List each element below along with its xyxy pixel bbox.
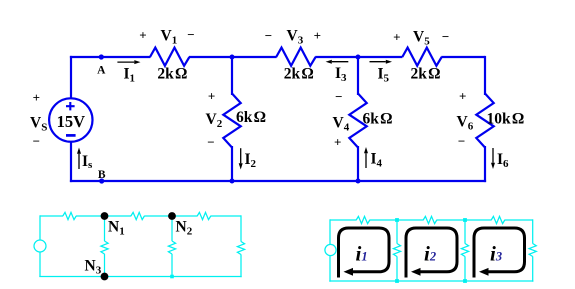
- junction dot mesh bottom divider 2: [463, 279, 467, 283]
- wire mesh-diagram right edge upper: [532, 219, 534, 243]
- mesh current loop i2 (arrow loop): [406, 228, 457, 276]
- svg-text:I1: I1: [124, 66, 136, 85]
- svg-text:2k Ω: 2k Ω: [284, 66, 314, 83]
- svg-text:V5: V5: [413, 29, 430, 48]
- svg-text:−: −: [207, 134, 214, 149]
- wire mesh-diagram divider 2 lower: [464, 256, 466, 281]
- wire top-left segment (VS top to node A to resistor V1): [70, 56, 150, 58]
- wire node-diagram N1 branch lower: [104, 254, 106, 277]
- wire mesh-diagram top rail segment c: [437, 219, 492, 221]
- svg-text:I4: I4: [371, 151, 383, 170]
- svg-text:V2: V2: [206, 111, 223, 130]
- current arrow I5: [370, 60, 393, 64]
- svg-text:V1: V1: [161, 28, 178, 47]
- svg-text:6k Ω: 6k Ω: [236, 109, 266, 126]
- svg-text:VS: VS: [30, 115, 47, 134]
- svg-text:I3: I3: [335, 65, 347, 84]
- svg-text:I2: I2: [245, 151, 257, 170]
- wire node-diagram N1 branch upper: [104, 216, 106, 241]
- wire node-diagram left edge lower: [39, 252, 41, 277]
- wire mesh-diagram divider 2 upper: [464, 220, 466, 244]
- svg-text:10k Ω: 10k Ω: [487, 111, 525, 128]
- wire mesh-diagram left edge lower: [329, 256, 331, 282]
- current arrow I6: [491, 148, 495, 169]
- wire left vertical upper (top wire to VS): [70, 56, 72, 99]
- wire branch 2 upper (top to V4): [357, 57, 359, 95]
- junction dot mesh bottom divider 1: [395, 279, 399, 283]
- current arrow Is: [77, 148, 81, 170]
- current arrow I4: [364, 147, 368, 168]
- wire top-right segment to corner: [441, 56, 485, 58]
- source (mesh diagram, circle): [325, 244, 336, 255]
- svg-text:N3: N3: [85, 258, 102, 277]
- wire mesh-diagram divider 1 lower: [396, 256, 398, 281]
- junction dot mesh top divider 1: [395, 218, 399, 222]
- svg-text:+: +: [314, 28, 321, 43]
- resistor (node diagram, N1-N3 branch): [101, 241, 108, 254]
- wire top segment V1 to junction 1: [189, 56, 277, 58]
- svg-text:−: −: [33, 134, 40, 149]
- node B (dot): [99, 178, 104, 183]
- resistor V3 2kOhm: [276, 48, 315, 66]
- wire node-diagram right edge lower: [240, 254, 242, 277]
- resistor (node diagram, right edge): [237, 242, 244, 255]
- svg-text:i1: i1: [356, 242, 368, 266]
- wire bottom rail (node B along bottom): [70, 180, 486, 182]
- svg-text:B: B: [98, 169, 106, 181]
- wire node-diagram right edge upper: [240, 215, 242, 241]
- wire right vertical upper (top to V6): [484, 56, 486, 95]
- svg-text:V3: V3: [287, 28, 304, 47]
- wire node-diagram top rail segment c: [144, 215, 197, 217]
- wire mesh-diagram divider 1 upper: [396, 220, 398, 244]
- resistor (mesh diagram, divider 1): [393, 244, 400, 257]
- voltage source VS 15V (circle with polarity): [49, 98, 92, 141]
- resistor (node diagram, source to N1): [63, 212, 76, 219]
- wire node-diagram bottom rail: [39, 276, 241, 278]
- current arrow I2: [239, 148, 243, 169]
- svg-text:+: +: [33, 90, 40, 105]
- current arrow I1: [117, 60, 140, 64]
- junction dot top of branch 1: [230, 55, 235, 60]
- resistor V5 2kOhm: [402, 48, 441, 66]
- svg-text:+: +: [139, 28, 146, 43]
- svg-text:−: −: [187, 27, 194, 42]
- svg-text:−: −: [458, 133, 465, 148]
- wire node-diagram top rail segment a: [40, 215, 63, 217]
- current arrow I3: [326, 60, 349, 64]
- svg-text:N2: N2: [176, 219, 193, 238]
- resistor (mesh diagram, top of mesh 2): [423, 216, 437, 223]
- wire node-diagram top rail segment b: [76, 215, 131, 217]
- svg-text:I6: I6: [497, 151, 509, 170]
- mesh current loop i3 (arrow loop): [474, 228, 525, 276]
- svg-text:+: +: [334, 134, 341, 149]
- junction dot (node diagram bottom of N2 branch): [170, 275, 174, 279]
- wire node-diagram top rail segment d: [211, 215, 242, 217]
- svg-text:A: A: [97, 65, 106, 77]
- svg-text:−: −: [265, 28, 272, 43]
- svg-text:−: −: [335, 89, 342, 104]
- resistor (mesh diagram, right edge): [529, 244, 536, 257]
- resistor (node diagram, N2 to right edge): [197, 212, 211, 219]
- resistor (node diagram, N1 to N2): [131, 212, 145, 219]
- wire mesh-diagram right edge lower: [532, 256, 534, 281]
- junction dot mesh top divider 2: [463, 218, 467, 222]
- source (node diagram, circle): [34, 240, 46, 252]
- svg-text:+: +: [393, 29, 400, 44]
- wire node-diagram left edge upper: [39, 215, 41, 240]
- junction dot top of branch 2: [356, 55, 361, 60]
- svg-text:6k Ω: 6k Ω: [363, 111, 393, 128]
- resistor V6 10kOhm: [476, 94, 493, 148]
- svg-text:I5: I5: [378, 66, 390, 85]
- svg-text:+: +: [208, 88, 215, 103]
- svg-text:V4: V4: [333, 115, 350, 134]
- wire branch 1 lower (V2 to bottom): [231, 146, 233, 181]
- svg-text:2k Ω: 2k Ω: [157, 66, 187, 83]
- resistor (mesh diagram, top of mesh 3): [491, 216, 505, 223]
- wire node-diagram N2 branch lower: [171, 254, 173, 277]
- resistor V4 6kOhm: [349, 94, 366, 148]
- svg-text:Is: Is: [82, 153, 93, 171]
- svg-text:15V: 15V: [57, 112, 86, 131]
- junction dot bottom of branch 2: [356, 179, 361, 184]
- wire top segment V3 to junction 2: [315, 56, 402, 58]
- mesh current loop i1 (arrow loop): [339, 228, 390, 276]
- node N3 (dot): [101, 273, 109, 281]
- wire branch 1 upper (top to V2): [231, 57, 233, 95]
- wire mesh-diagram top rail segment d: [505, 219, 533, 221]
- wire right vertical lower (V6 to bottom): [484, 146, 486, 182]
- wire mesh-diagram bottom rail: [329, 280, 533, 282]
- wire mesh-diagram top rail segment b: [370, 219, 424, 221]
- wire mesh-diagram top rail segment a: [330, 219, 357, 221]
- resistor V1 2kOhm: [150, 48, 189, 66]
- wire branch 2 lower (V4 to bottom): [357, 146, 359, 181]
- node A (dot): [99, 54, 104, 59]
- svg-text:N1: N1: [108, 219, 125, 238]
- resistor (mesh diagram, top of mesh 1): [356, 216, 370, 223]
- resistor (mesh diagram, divider 2): [461, 244, 468, 257]
- wire left vertical lower (VS to bottom wire): [70, 141, 72, 182]
- svg-text:−: −: [442, 29, 449, 44]
- resistor (node diagram, N2 branch): [168, 241, 175, 254]
- node N1 (dot): [101, 212, 109, 220]
- svg-text:V6: V6: [457, 114, 474, 133]
- resistor V2 6kOhm: [223, 94, 240, 148]
- wire node-diagram N2 branch upper: [171, 216, 173, 241]
- svg-text:2k Ω: 2k Ω: [410, 66, 440, 83]
- wire mesh-diagram left edge upper: [329, 219, 331, 244]
- svg-text:i3: i3: [490, 242, 502, 266]
- svg-text:+: +: [459, 89, 466, 104]
- node N2 (dot): [168, 212, 176, 220]
- svg-text:i2: i2: [424, 242, 436, 266]
- junction dot bottom of branch 1: [230, 179, 235, 184]
